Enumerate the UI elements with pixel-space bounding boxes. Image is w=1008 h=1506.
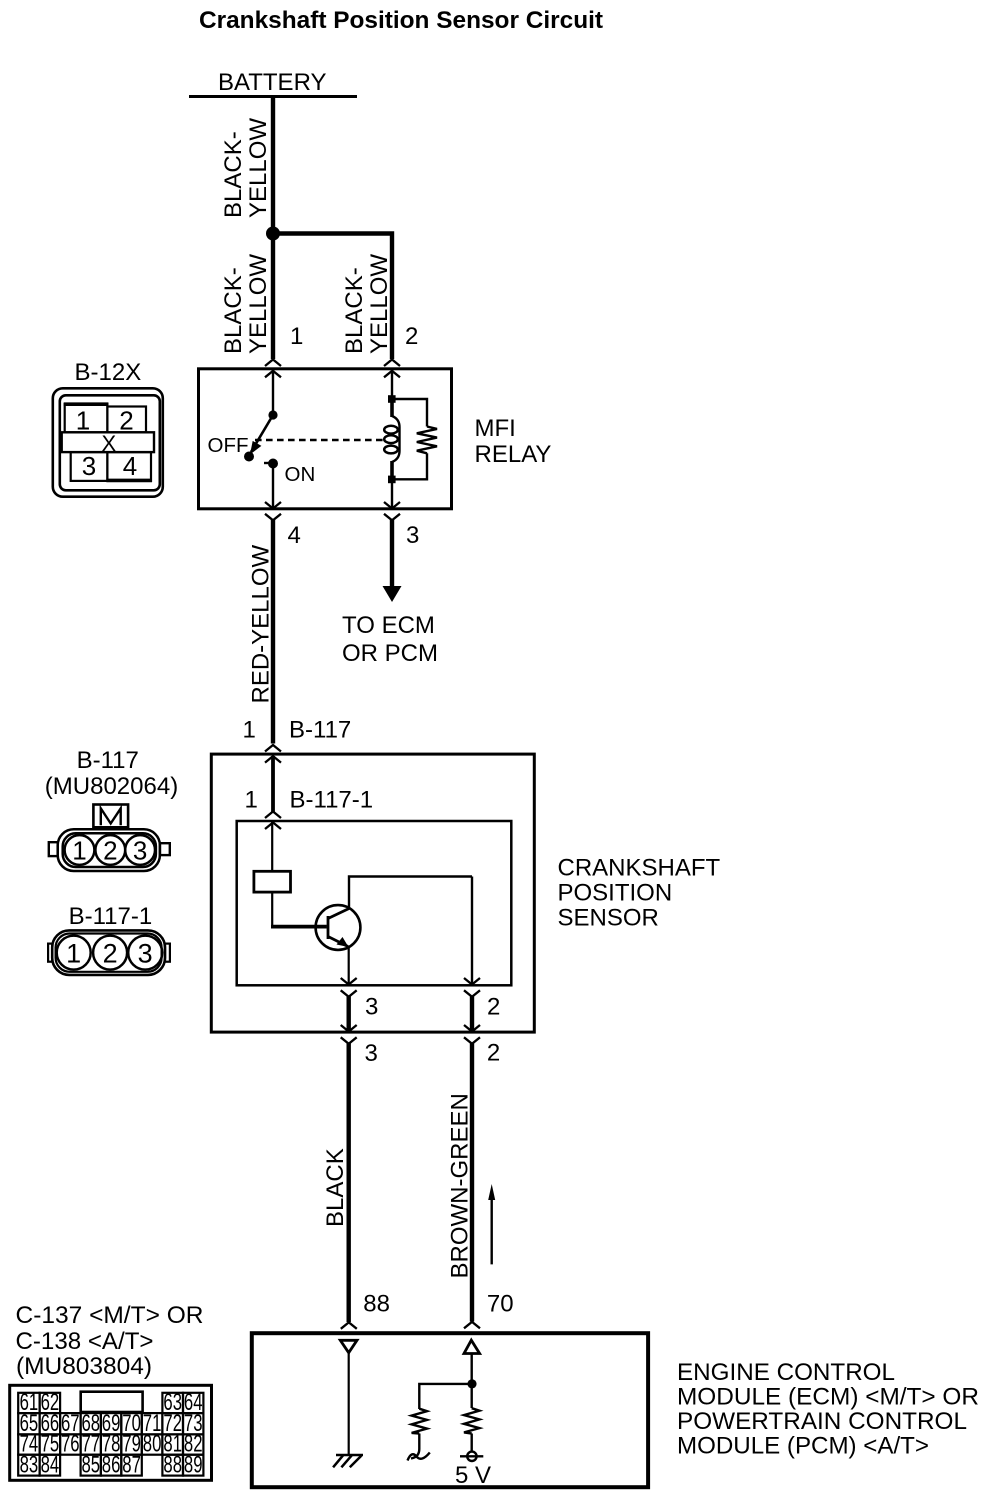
- C-137 pin 62 cell: [40, 1393, 61, 1413]
- B-12X cell 4 key bar: [106, 479, 152, 483]
- svg-text:POWERTRAIN CONTROL: POWERTRAIN CONTROL: [677, 1408, 967, 1435]
- transistor base wire: [271, 925, 327, 929]
- svg-text:B-117: B-117: [289, 717, 351, 744]
- coil loop 1: [384, 426, 398, 434]
- C-137 connector outline: [10, 1385, 212, 1480]
- svg-text:SENSOR: SENSOR: [558, 905, 659, 932]
- dashed actuation line: [255, 439, 384, 442]
- svg-text:2: 2: [487, 1040, 500, 1067]
- ECM branch to pull-up: [419, 1384, 471, 1409]
- label BLACK-YELLOW 3: [341, 254, 393, 354]
- svg-text:(MU803804): (MU803804): [16, 1353, 152, 1380]
- svg-text:84: 84: [41, 1451, 60, 1478]
- B-12X connector inner shell: [60, 395, 160, 490]
- svg-text:BROWN-GREEN: BROWN-GREEN: [447, 1093, 474, 1278]
- relay switch pivot node: [268, 410, 277, 419]
- svg-text:70: 70: [487, 1291, 514, 1318]
- svg-text:Crankshaft Position Sensor Cir: Crankshaft Position Sensor Circuit: [199, 7, 603, 34]
- svg-text:3: 3: [406, 522, 419, 549]
- svg-text:(MU802064): (MU802064): [45, 773, 178, 800]
- svg-text:C-137 <M/T> OR: C-137 <M/T> OR: [16, 1302, 204, 1329]
- relay resistor branch top: [396, 399, 428, 427]
- wire sensor pin2 to ECM pin70: [470, 1044, 474, 1322]
- B-117 entry chevrons: [265, 745, 281, 763]
- svg-text:2: 2: [103, 836, 117, 866]
- svg-text:80: 80: [143, 1431, 162, 1458]
- svg-text:3: 3: [365, 1040, 378, 1067]
- B-117-1 right tab: [165, 944, 170, 962]
- arrowhead TO ECM: [383, 586, 402, 602]
- coil loop 3: [384, 446, 398, 454]
- svg-text:2: 2: [103, 939, 118, 969]
- pin 2 terminal chevrons: [384, 360, 400, 378]
- junction node: [266, 227, 280, 241]
- relay switch wire from pin 1: [272, 370, 274, 415]
- svg-text:85: 85: [82, 1451, 101, 1478]
- B-12X cell 1: [65, 404, 108, 432]
- C-137 pin 77 cell: [81, 1434, 101, 1454]
- ECM pin 70 terminal triangle: [464, 1340, 480, 1353]
- outer pin 2 chevrons: [464, 1025, 480, 1044]
- C-137 pin 76 cell: [60, 1434, 81, 1454]
- svg-text:1: 1: [290, 323, 303, 350]
- svg-text:BLACK: BLACK: [322, 1148, 349, 1227]
- svg-text:B-117: B-117: [77, 747, 139, 774]
- B-117 M glyph: [101, 808, 121, 825]
- C-137 pin 80 cell: [142, 1434, 163, 1454]
- svg-text:B-12X: B-12X: [75, 359, 142, 386]
- wire pin1 into inner box: [271, 756, 275, 812]
- ON contact tick: [264, 462, 271, 464]
- collector wire down to pin 2: [471, 877, 473, 986]
- C-137 pin 78 cell: [101, 1434, 121, 1454]
- svg-text:1: 1: [66, 939, 81, 969]
- C-137 pin 68 cell: [81, 1413, 101, 1434]
- B-117 cavity 3: [125, 835, 155, 865]
- wire element to transistor base: [271, 892, 273, 927]
- svg-text:86: 86: [102, 1451, 121, 1478]
- C-137 pin 79 cell: [121, 1434, 142, 1454]
- svg-text:4: 4: [123, 451, 137, 481]
- B-117-1 cavity 2: [93, 936, 127, 970]
- C-137 pin 83 cell: [18, 1455, 39, 1476]
- ON contact node: [268, 459, 278, 469]
- collector wire up and across: [349, 877, 472, 910]
- ground symbol: [333, 1455, 363, 1467]
- B-117-1 shell inner: [56, 934, 162, 972]
- outer pin 3 chevrons: [341, 1025, 357, 1044]
- wire sensor pin3 to ECM pin88: [347, 1044, 351, 1323]
- C-137 pin 81 cell: [162, 1434, 183, 1454]
- ECM box: [252, 1333, 648, 1487]
- pin 3 chevrons below relay: [384, 502, 400, 520]
- svg-text:MFI: MFI: [475, 415, 516, 442]
- C-137 pin 87 cell: [121, 1455, 142, 1476]
- svg-text:76: 76: [61, 1431, 80, 1458]
- transistor Q1 circle: [316, 905, 361, 950]
- svg-text:C-138 <A/T>: C-138 <A/T>: [16, 1328, 154, 1355]
- svg-text:BLACK-YELLOW: BLACK-YELLOW: [220, 254, 272, 354]
- svg-text:2: 2: [487, 994, 500, 1021]
- B-12X middle band: [62, 432, 154, 452]
- C-137 pin 70 cell: [121, 1413, 142, 1434]
- svg-text:POSITION: POSITION: [558, 880, 673, 907]
- C-137 pin 66 cell: [40, 1413, 61, 1434]
- B-117 left tab: [49, 842, 58, 856]
- svg-text:BATTERY: BATTERY: [218, 69, 326, 96]
- svg-text:OR PCM: OR PCM: [342, 640, 438, 667]
- svg-text:BLACK-YELLOW: BLACK-YELLOW: [220, 118, 272, 218]
- svg-text:RELAY: RELAY: [475, 441, 552, 468]
- svg-text:5 V: 5 V: [455, 1462, 491, 1489]
- svg-text:3: 3: [365, 994, 378, 1021]
- C-137 pin 71 cell: [142, 1413, 163, 1434]
- sensing element box: [254, 871, 291, 892]
- svg-text:83: 83: [20, 1451, 39, 1478]
- svg-text:1: 1: [243, 717, 256, 744]
- ECM resistor R2: [464, 1408, 479, 1433]
- ECM pin 88 terminal triangle: [340, 1340, 357, 1352]
- B-117 cavity 2: [95, 835, 125, 865]
- C-137 pin 82 cell: [183, 1434, 203, 1454]
- coil bottom lead: [390, 461, 394, 476]
- C-137 pin 61 cell: [18, 1393, 39, 1413]
- 5V terminal circle: [467, 1452, 476, 1461]
- ECM pin 70 chevron: [464, 1322, 480, 1329]
- svg-text:OFF: OFF: [208, 434, 249, 457]
- coil bowed conductor: [392, 416, 400, 462]
- C-137 pin 89 cell: [183, 1455, 203, 1476]
- svg-text:BLACK-YELLOW: BLACK-YELLOW: [341, 254, 393, 354]
- 5V terminal bar: [460, 1455, 483, 1457]
- wire inner pin3 to box edge: [347, 997, 351, 1031]
- C-137 pin 75 cell: [40, 1434, 61, 1454]
- transistor base bar: [327, 916, 330, 939]
- label RED-YELLOW: [248, 544, 275, 703]
- svg-text:1: 1: [72, 836, 86, 866]
- svg-text:B-117-1: B-117-1: [69, 903, 153, 930]
- coil top lead: [390, 402, 394, 417]
- relay switch blade arrowhead: [250, 441, 261, 455]
- label BLACK: [322, 1148, 349, 1227]
- label BLACK-YELLOW 1: [220, 118, 272, 218]
- svg-text:88: 88: [163, 1451, 182, 1478]
- B-117-1 left tab: [48, 944, 52, 962]
- B-117-1 entry chevrons: [265, 812, 281, 830]
- C-137 keyway box: [81, 1392, 143, 1412]
- crankshaft position sensor box: [211, 754, 534, 1032]
- svg-text:2: 2: [405, 323, 418, 350]
- ECM 5V wire from pin 70: [471, 1354, 473, 1409]
- OFF contact node: [244, 452, 254, 462]
- svg-text:MODULE (ECM) <M/T> OR: MODULE (ECM) <M/T> OR: [677, 1384, 979, 1411]
- svg-text:TO ECM: TO ECM: [342, 612, 435, 639]
- coil bottom junction (square): [388, 476, 396, 484]
- relay resistor R: [417, 427, 437, 454]
- battery terminal line: [189, 95, 357, 98]
- wire inner pin2 to box edge: [470, 997, 474, 1031]
- wire to sensing element: [271, 822, 273, 872]
- svg-text:87: 87: [122, 1451, 141, 1478]
- inner pin 3 chevrons: [341, 978, 357, 997]
- emitter wire down to pin 3: [348, 946, 350, 985]
- ECM resistor R1: [412, 1409, 427, 1434]
- svg-text:RED-YELLOW: RED-YELLOW: [248, 544, 275, 703]
- C-137 pin 64 cell: [183, 1393, 203, 1413]
- inner pin 2 chevrons: [464, 978, 480, 997]
- signal direction arrow: [491, 1198, 493, 1264]
- transistor emitter arrowhead: [337, 937, 349, 947]
- wire ON contact to pin 4: [272, 464, 274, 508]
- svg-text:ENGINE CONTROL: ENGINE CONTROL: [677, 1359, 895, 1386]
- C-137 pin 67 cell: [60, 1413, 81, 1434]
- pin 1 terminal chevrons: [265, 360, 281, 378]
- svg-text:2: 2: [119, 405, 133, 435]
- wire battery to junction: [271, 97, 275, 359]
- B-12X cell 1 key bar: [64, 402, 109, 406]
- wire branch to right: [273, 234, 392, 360]
- B-117 right tab: [160, 843, 170, 855]
- svg-text:3: 3: [133, 836, 147, 866]
- ECM pin 88 chevron: [341, 1322, 357, 1329]
- C-137 pin 69 cell: [101, 1413, 121, 1434]
- transistor collector diagonal: [328, 909, 349, 919]
- sensor inner box: [237, 821, 512, 985]
- svg-text:1: 1: [76, 405, 90, 435]
- B-12X cell 2: [107, 407, 146, 433]
- svg-text:1: 1: [245, 787, 258, 814]
- B-117 cavity 1: [65, 835, 95, 865]
- wire relay pin4 down to B-117: [271, 520, 275, 744]
- label BROWN-GREEN: [447, 1093, 474, 1278]
- C-137 pin 74 cell: [18, 1434, 39, 1454]
- C-137 pin 72 cell: [162, 1413, 183, 1434]
- svg-text:4: 4: [288, 522, 301, 549]
- svg-text:3: 3: [138, 939, 153, 969]
- coil top junction (square): [388, 395, 396, 403]
- ECM junction node: [467, 1379, 476, 1388]
- C-137 pin 86 cell: [101, 1455, 121, 1476]
- B-12X cell 4: [107, 452, 151, 481]
- C-137 pin 85 cell: [81, 1455, 101, 1476]
- wire coil to pin 3: [391, 483, 393, 507]
- svg-text:CRANKSHAFT: CRANKSHAFT: [558, 855, 721, 882]
- svg-text:88: 88: [363, 1291, 390, 1318]
- relay resistor branch bottom: [396, 453, 428, 479]
- B-12X connector outer shell: [53, 388, 163, 496]
- label BLACK-YELLOW 2: [220, 254, 272, 354]
- pin 4 chevrons below relay: [265, 502, 281, 520]
- ECM ground wire: [348, 1353, 350, 1455]
- coil loop 2: [384, 435, 398, 443]
- R2 lead to 5V: [471, 1434, 473, 1452]
- break squiggle: [408, 1453, 430, 1461]
- C-137 pin 88 cell: [162, 1455, 183, 1476]
- B-117 shell outer: [58, 829, 160, 871]
- svg-text:89: 89: [184, 1451, 203, 1478]
- B-117 shell inner: [63, 833, 156, 867]
- C-137 pin 73 cell: [183, 1413, 203, 1434]
- B-12X cell 3: [71, 452, 108, 481]
- C-137 pin 65 cell: [18, 1413, 39, 1434]
- C-137 pin 63 cell: [162, 1393, 183, 1413]
- relay switch blade: [251, 415, 273, 452]
- wire relay pin3 down: [390, 520, 394, 588]
- svg-text:ON: ON: [285, 463, 316, 486]
- svg-text:MODULE (PCM) <A/T>: MODULE (PCM) <A/T>: [677, 1433, 929, 1460]
- relay coil wire from pin 2: [391, 370, 393, 396]
- B-117-1 shell outer: [52, 930, 165, 975]
- R1 lower lead with break squiggle: [411, 1434, 419, 1459]
- B-117-1 cavity 1: [57, 936, 91, 970]
- C-137 pin 84 cell: [40, 1455, 61, 1476]
- B-117 M tab: [93, 805, 128, 828]
- B-117-1 cavity 3: [128, 936, 162, 970]
- svg-text:3: 3: [82, 451, 96, 481]
- transistor emitter diagonal: [328, 937, 348, 947]
- svg-text:B-117-1: B-117-1: [290, 787, 374, 814]
- MFI relay box: [199, 369, 452, 509]
